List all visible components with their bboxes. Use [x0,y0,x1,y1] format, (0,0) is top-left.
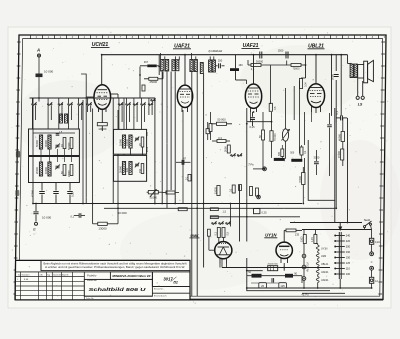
voltage selector spine [338,232,340,279]
resistor 0,1 det [300,147,303,155]
terminal af [258,196,260,198]
IF transformer T1 [161,59,164,70]
scale lamp 1 [302,254,306,258]
coil L7 80 [63,165,66,176]
svg-text:70000: 70000 [293,68,301,71]
wire af bus [210,216,300,218]
svg-text:1500: 1500 [301,236,304,242]
wire UCH21 couplings [86,96,94,98]
scale lamp 3 [302,277,306,281]
resistor 50 filt [252,274,262,278]
wire UBL21 pin riser [311,112,313,122]
stain on left frame band lower [15,190,19,196]
wire output top risers [331,55,333,116]
capacitor 0,25 det [252,112,254,117]
wire bottom bus [247,287,372,289]
svg-text:Riedmai: Riedmai [87,278,97,282]
resistor 15000 [341,149,344,160]
switch contact S1e [78,104,79,105]
resistor 1500 mains [303,235,306,244]
svg-text:20+1: 20+1 [147,146,149,152]
resistor 10000 af [217,186,220,196]
switch contact S1d [68,104,69,105]
svg-text:20000: 20000 [69,170,71,177]
resistor 13000 [98,222,108,225]
svg-text:30000: 30000 [256,60,264,64]
resistor 70000 top [291,64,301,67]
svg-text:Schaltbild 506 U: Schaltbild 506 U [89,287,147,293]
switch contact S2a [118,104,119,105]
svg-text:467: 467 [144,60,149,64]
wire avc riser x159 [158,55,160,75]
tuning indicator tube [215,242,232,259]
wire riser x203 [203,74,205,268]
svg-text:50 000: 50 000 [217,118,226,122]
switch contact S2b [126,104,127,105]
svg-text:125: 125 [346,261,351,265]
capacitor 1,5 box1 [56,133,60,135]
switch contact S2d [141,104,142,105]
resistor 4,15 mains [314,235,317,244]
svg-text:1,5: 1,5 [223,210,227,213]
resistor 0,3 [217,140,226,143]
frame ruler ticks left [17,41,21,43]
svg-text:160: 160 [346,250,351,254]
earth terminal E [35,222,38,225]
resistor 170 small [166,191,175,194]
wire riser x167 [166,72,168,209]
capacitor 20 osc1 [141,137,144,147]
svg-text:30000: 30000 [44,139,48,147]
oscillator coil 40000 [129,135,132,148]
svg-text:T.Pu: T.Pu [248,162,254,166]
svg-text:LS: LS [358,102,363,106]
svg-text:UAF21: UAF21 [321,271,329,274]
speaker terminals [356,96,359,99]
resistor 1,5 a [210,208,218,211]
capacitor 0,1 fb [340,115,342,120]
svg-text:/52: /52 [172,280,178,284]
resistor 500 b [293,86,295,120]
wire box1 to box2 stubs [40,149,42,162]
title block note box [41,260,190,270]
switch contact S2e [148,104,149,105]
resistor 1,5 b [210,216,218,219]
voltage tap 220 [336,240,345,242]
svg-text:20000: 20000 [35,166,39,174]
oscillator coil 120 [129,162,132,175]
wire riser x299 [299,81,301,154]
stain on left frame band upper [16,151,20,158]
wire osc box risers [117,110,119,129]
wire heater chain [317,244,319,246]
resistor 182 bus [178,208,187,211]
switch contact S1a [32,104,33,105]
svg-text:15000: 15000 [337,150,341,158]
resistor 70000 det [270,131,273,142]
resistor 50000 avc [217,122,227,125]
wire mains right column [371,230,373,239]
revision table rows [15,276,84,278]
wire box1 internal top [33,132,75,134]
mains terminal 1 [370,252,374,256]
voltage tap 200 [336,246,345,248]
coil L5 20000 [39,162,42,176]
svg-text:40000: 40000 [126,139,129,146]
svg-text:Netz: Netz [364,218,371,222]
tube UAF21 first [177,85,192,107]
resistor filled det a [274,158,285,161]
capacitor J2000 stub [162,72,164,79]
svg-text:51000: 51000 [150,196,158,200]
IF transformer T3 [209,60,212,72]
svg-text:st ertüfen und mit geeichten m: st ertüfen und mit geeichten messber. Pr… [45,266,185,269]
voltage tap 125 [336,262,345,264]
switch contact S2c [133,104,134,105]
tube UY1N pins [280,258,282,263]
resistor mag 2 [222,228,225,238]
wire af riser x230 [230,204,232,227]
IF transformer T1b [172,60,175,71]
frame ruler ticks top [29,35,31,39]
svg-text:30000: 30000 [118,165,122,173]
svg-text:5000: 5000 [331,74,335,80]
svg-text:100: 100 [147,131,149,136]
coil L3 18 [63,138,66,149]
coil box oscillator 2 [114,155,147,181]
svg-text:0,2A: 0,2A [375,241,380,244]
svg-text:47000: 47000 [31,189,35,197]
svg-text:2,1: 2,1 [251,68,255,71]
oscillator padder coils [60,114,63,123]
svg-text:0,04: 0,04 [304,82,307,87]
tube UBL21 pins [311,107,313,113]
wire bottom bus2 [302,292,345,294]
capacitor elko 125 [279,283,287,288]
svg-text:v.Nr.: v.Nr. [39,273,43,276]
blatt box [152,286,190,288]
svg-text:Geprüft: Geprüft [62,273,69,276]
schaltbild box [84,279,152,296]
capacitor 257 af [256,188,259,196]
capacitor 47000 [39,191,45,193]
wire hv bus [222,267,330,269]
wire det risers [262,112,264,130]
wire UAF21a anode [184,55,186,85]
wire magic eye feeds [218,238,220,243]
resistor 251 af [250,187,253,196]
capacitor 0,1 left [74,215,79,217]
voltage tap 150 [336,257,345,259]
switch contacts af [212,223,213,224]
pickup terminal [263,168,265,170]
svg-text:UMK: UMK [190,234,199,238]
svg-text:0,1: 0,1 [335,110,339,114]
tuning indicator pins [219,259,221,264]
resistor 143 small [142,85,145,91]
svg-text:E: E [33,228,36,232]
switch contact S3 [151,100,152,101]
wire UBL21 anode [315,55,317,84]
coil L2 30000 [48,135,51,149]
wire B+ top rail [101,54,348,56]
capacitor 0,25 under box [67,191,73,193]
svg-text:2000: 2000 [224,146,228,152]
voltage tap 160 [336,251,345,253]
svg-text:0,25: 0,25 [262,211,268,215]
drawing number box [152,272,190,287]
switch contact S1b [47,104,48,105]
resistor 2000 [227,145,230,153]
svg-text:0,1: 0,1 [71,215,75,219]
svg-text:MINERVA-RADIO Wien VII: MINERVA-RADIO Wien VII [112,274,150,278]
heater chain UM4 [316,253,319,259]
scanned paper sheet [8,27,391,308]
resistor 25000 coupling [149,77,158,80]
svg-text:Ersatz für:: Ersatz für: [154,288,164,291]
wire mains bus top [290,222,362,224]
resistor 467 top [147,65,156,68]
svg-text:40, Pu: 40, Pu [302,293,310,296]
wire switch bus left [30,97,94,99]
wire UAF21a pin riser [182,110,184,204]
oscillator coil 10000 [122,135,125,148]
heater chain UCH21 [316,277,319,283]
wire ground bus 2 [104,207,335,209]
capacitor 1500 coupling [285,52,287,59]
svg-text:110: 110 [346,267,351,271]
svg-text:70000: 70000 [298,175,302,183]
resistor 10000 antenna [36,74,43,78]
svg-text:10000: 10000 [44,166,48,174]
frame ruler ticks right [381,41,385,43]
trimmer potentiometer det [282,129,288,141]
svg-text:200: 200 [346,245,351,249]
resistor 10 under tube [269,103,272,111]
wire selector bottom [339,279,341,288]
wire riser x175 [174,72,176,204]
svg-text:10000: 10000 [98,127,106,131]
svg-text:Pudelko: Pudelko [87,274,97,278]
svg-text:≈: ≈ [371,260,373,264]
capacitor 5000 [334,74,339,76]
capacitor filt mid [271,278,273,282]
svg-text:20000 600: 20000 600 [268,264,279,266]
svg-text:0,3: 0,3 [218,136,222,140]
voltage tap 240 [336,235,345,237]
trimmer osc1 [135,137,139,139]
svg-text:Beim Abgleich nur mit einem Rö: Beim Abgleich nur mit einem Röhrenvoltme… [44,262,187,265]
speaker [364,61,368,83]
svg-text:0,25: 0,25 [71,191,75,197]
svg-text:0,25: 0,25 [249,125,255,129]
resistor filled det b [291,159,302,162]
wire osc hook [81,74,86,97]
wire riser x154 [154,98,156,204]
resistor 70000 fb [302,173,305,185]
title block header row [16,271,111,273]
tube UAF21 second [245,84,261,108]
capacitor 0,1 g [327,124,332,126]
switch contact S1c [58,104,59,105]
heater chain UBL21 [316,261,319,267]
wire avc riser x140 [139,67,141,99]
wire antenna down [38,57,40,74]
wire cathode line det [247,121,272,123]
wire riser x171 [170,72,172,191]
svg-text:70 000: 70 000 [274,133,277,141]
switch contact S1f [87,104,88,105]
resistor 500 c [304,112,306,145]
capacitor elko 20 [259,283,267,288]
svg-text:250: 250 [218,59,223,63]
resistor 10000 UCH21 grid [97,123,107,126]
tube UAF21 first pins [181,107,183,112]
heater chain UY1N [316,245,319,251]
resistor mag 1 [217,228,220,238]
capacitor 10000 to earth [35,204,37,212]
tube UCH21 [94,85,111,110]
fuse 1 [369,238,373,244]
resistor mag 3 [208,229,211,236]
coil single 201 [200,63,203,74]
title block outer [15,260,190,299]
scale lamp 2 [302,265,306,269]
fuse 2 [369,277,373,283]
resistor 2,1 [251,64,261,67]
wire lamp column [303,230,305,235]
wire antenna to wave switch [38,77,40,101]
svg-text:UBL21: UBL21 [321,263,329,266]
coil box antenna filter 2 [29,157,80,183]
capacitor 250 [216,65,218,67]
svg-text:Ersetzt durch:: Ersetzt durch: [154,294,167,297]
svg-text:10 000: 10 000 [42,216,52,220]
svg-text:100: 100 [346,272,351,276]
svg-text:150: 150 [139,168,142,173]
coil 301 vertical [299,79,302,89]
svg-text:UY1N: UY1N [265,233,277,238]
wire riser x192 [191,72,193,297]
svg-text:Zchn.-Nr.: Zchn.-Nr. [86,297,94,300]
svg-text:Tag: Tag [47,274,50,276]
tube UY1N [276,242,292,258]
voltage selector plug [338,227,342,232]
wire switch bus mid [95,97,155,99]
capacitor 150 osc2 [141,164,144,174]
wire riser x305 [305,55,307,78]
wire filter section [247,258,330,291]
svg-text:UAF21: UAF21 [321,279,329,282]
revision table columns [19,272,21,300]
wire UAF21b anode [253,55,255,84]
oscillator coil 300000 [122,162,125,175]
mains terminal 2 [370,266,374,270]
resistor 0,1 mid [188,174,191,181]
junction dots [101,54,103,56]
wire left risers [32,98,34,204]
svg-text:220: 220 [346,239,351,243]
wire riser x197 [196,72,198,297]
svg-text:120: 120 [126,167,129,172]
svg-text:UY1N: UY1N [321,248,328,251]
wire riser x240 [239,185,241,242]
capacitor 0,1 af [232,185,235,193]
coil L6 10000 400 [48,162,51,176]
resistor 100 rect [286,229,296,232]
svg-text:fy=462kHz: fy=462kHz [208,49,222,53]
svg-text:50000: 50000 [35,139,39,147]
capacitor 30000 coupling [259,52,261,59]
heater chain UAF21a [316,269,319,275]
capacitor 8000 0,25 [254,209,260,214]
wire ground bus [33,203,302,205]
coil L4 50-500 [70,138,73,149]
output stage box [308,108,335,200]
wire fb net [335,123,337,209]
coil box antenna filter 1 [29,129,80,156]
wire riser x246 [246,108,248,242]
schematic border frame inner [19,39,383,297]
wire eye pins down [219,264,221,268]
coil box oscillator 1 [114,129,147,154]
paper noise speckles [12,29,388,305]
resistor 240 af [239,185,242,191]
wire riser x270 [270,65,272,104]
resistor 40000 [341,132,344,142]
svg-text:240: 240 [346,234,351,238]
svg-text:135: 135 [295,232,300,236]
wire output box to mains [334,200,336,222]
voltage tap 110 [336,268,345,270]
svg-text:10000: 10000 [118,138,122,146]
frame bottom emphasis [15,299,383,301]
wire can stubs [160,53,162,60]
trimmer box2 [56,165,60,167]
wire riser x245 [246,80,248,84]
svg-text:25000: 25000 [150,80,158,84]
svg-text:10 000: 10 000 [44,70,54,74]
svg-text:125: 125 [280,284,285,288]
choke 20000 600 [268,266,278,271]
svg-text:HV7/0,1A: HV7/0,1A [306,262,309,272]
capacitor mid under box [53,191,59,193]
resistor 90 filt [285,274,293,278]
capacitor 47 mid [181,160,183,165]
resistor 50 det [262,130,265,140]
schematic border frame outer [15,35,386,300]
resistor pair 207 [206,129,209,134]
wire riser x162 [161,72,163,204]
wire UCH21 anode to rail [101,55,103,85]
wire grid riser x235 [235,55,237,68]
svg-text:50-500: 50-500 [69,142,71,150]
minerva name box [110,272,152,280]
svg-text:UM4: UM4 [321,255,327,258]
svg-text:A: A [36,48,40,53]
voltage tap 100 [336,273,345,275]
svg-text:13000: 13000 [98,226,107,230]
resistor 500 det [281,149,284,157]
svg-text:4,15: 4,15 [311,237,314,242]
paper mottling [15,80,125,160]
tube UBL21 [307,84,324,108]
tube UAF21 second pins [250,108,252,112]
IF transformer T2 [190,60,193,72]
svg-text:50 000: 50 000 [118,211,128,215]
trimmer box1 [56,144,60,146]
output transformer [350,64,353,78]
